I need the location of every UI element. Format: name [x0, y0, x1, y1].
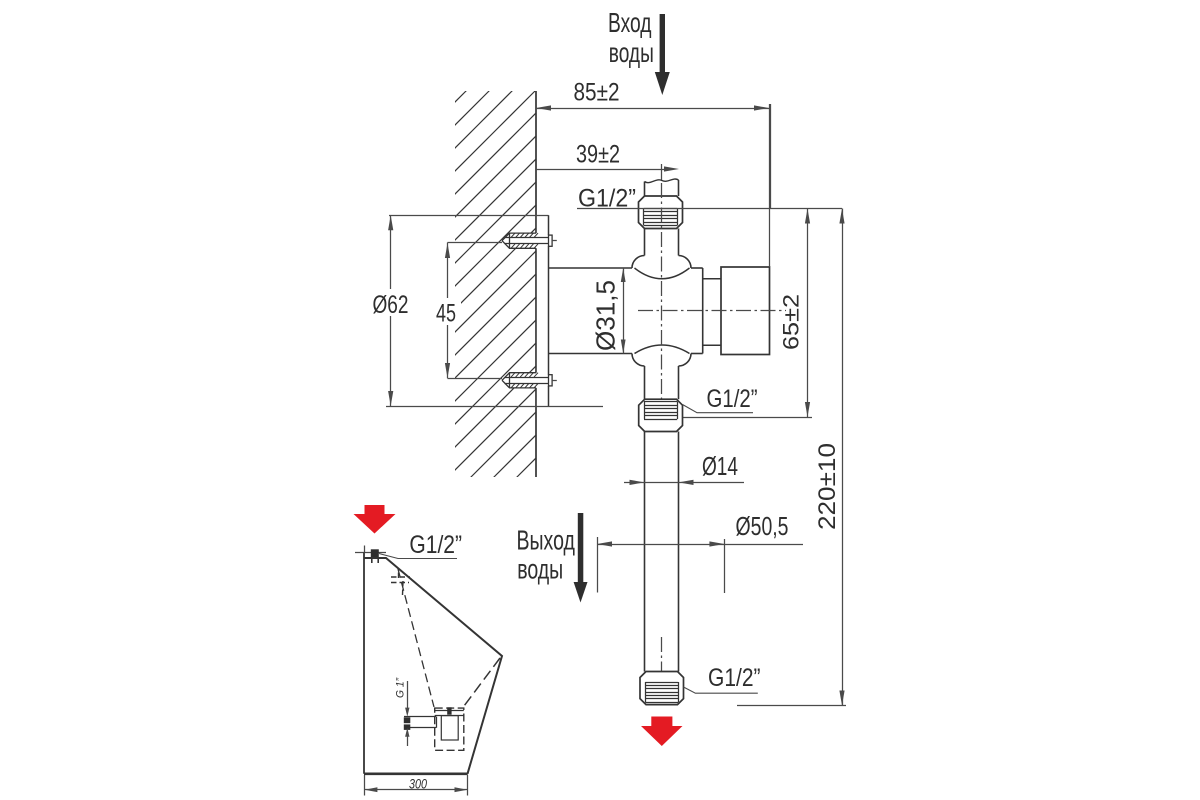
- svg-text:220±10: 220±10: [814, 443, 841, 530]
- svg-text:85±2: 85±2: [574, 79, 620, 107]
- svg-text:G1/2”: G1/2”: [707, 385, 758, 413]
- svg-text:Ø31,5: Ø31,5: [591, 280, 621, 351]
- svg-text:Вход: Вход: [608, 7, 652, 38]
- svg-text:G 1”: G 1”: [395, 677, 407, 698]
- svg-text:Выход: Выход: [517, 525, 575, 556]
- svg-text:Ø50,5: Ø50,5: [736, 511, 789, 541]
- svg-text:воды: воды: [517, 553, 563, 584]
- svg-text:Ø62: Ø62: [373, 291, 409, 319]
- svg-text:39±2: 39±2: [576, 141, 620, 169]
- svg-text:Ø14: Ø14: [702, 451, 738, 481]
- svg-text:воды: воды: [609, 37, 654, 68]
- svg-text:G1/2”: G1/2”: [409, 531, 462, 559]
- svg-text:45: 45: [436, 300, 456, 328]
- svg-text:G1/2”: G1/2”: [708, 664, 761, 692]
- svg-text:300: 300: [409, 776, 427, 792]
- svg-text:65±2: 65±2: [779, 294, 804, 350]
